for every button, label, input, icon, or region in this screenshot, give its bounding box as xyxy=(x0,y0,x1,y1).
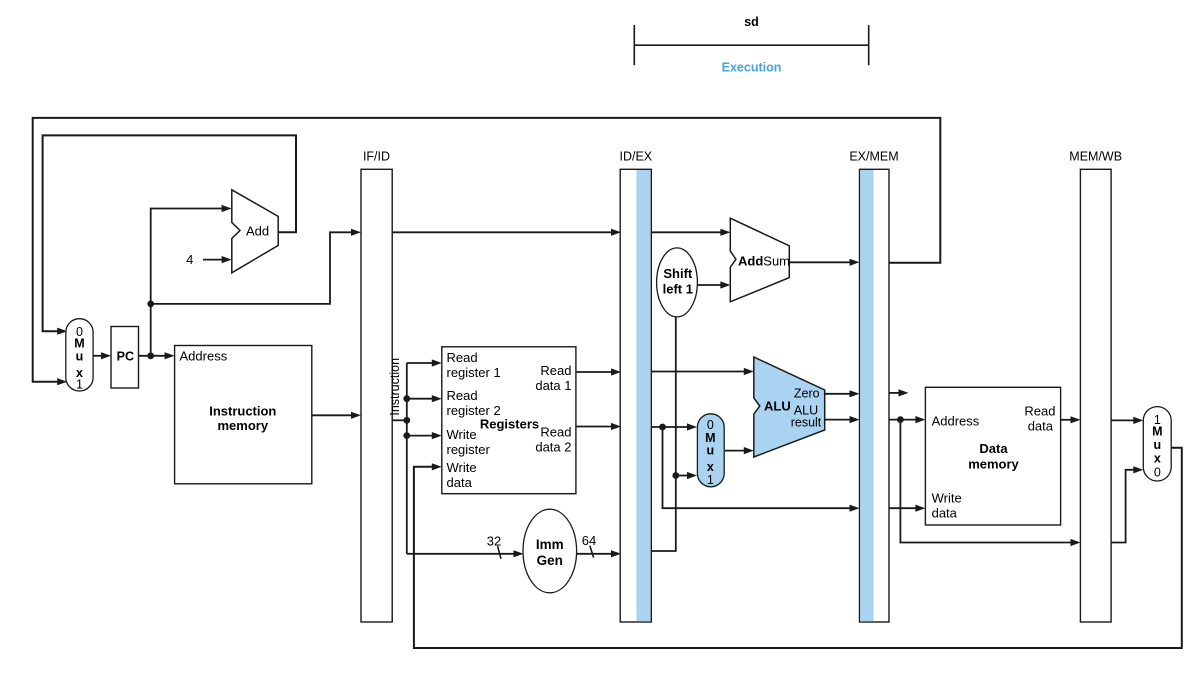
svg-text:Read: Read xyxy=(1024,403,1055,418)
svg-text:MEM/WB: MEM/WB xyxy=(1069,150,1122,164)
svg-text:Imm: Imm xyxy=(536,537,564,552)
svg-text:x: x xyxy=(707,460,714,474)
svg-text:Write: Write xyxy=(447,460,477,475)
svg-text:M: M xyxy=(1152,425,1162,439)
svg-text:M: M xyxy=(74,337,84,351)
svg-text:Instruction: Instruction xyxy=(388,358,402,416)
svg-text:Address: Address xyxy=(180,349,228,364)
svg-text:data 2: data 2 xyxy=(535,440,571,455)
svg-text:ALU: ALU xyxy=(764,398,791,413)
svg-text:Shift: Shift xyxy=(663,266,693,281)
svg-text:sd: sd xyxy=(744,15,759,29)
svg-text:0: 0 xyxy=(1154,466,1161,480)
svg-text:result: result xyxy=(791,415,822,429)
svg-text:4: 4 xyxy=(186,252,193,267)
svg-text:Add: Add xyxy=(246,224,269,239)
svg-text:Data: Data xyxy=(979,441,1008,456)
svg-text:register 1: register 1 xyxy=(447,365,501,380)
svg-text:left 1: left 1 xyxy=(663,282,693,297)
svg-text:u: u xyxy=(1153,438,1161,452)
svg-text:data: data xyxy=(1028,418,1054,433)
svg-text:64: 64 xyxy=(582,533,596,548)
svg-text:Address: Address xyxy=(932,413,980,428)
svg-text:Execution: Execution xyxy=(722,61,782,75)
svg-text:data: data xyxy=(932,506,958,521)
svg-text:1: 1 xyxy=(76,378,83,392)
svg-text:Instruction: Instruction xyxy=(209,404,276,419)
svg-text:Read: Read xyxy=(540,363,571,378)
svg-text:Write: Write xyxy=(932,491,962,506)
svg-text:u: u xyxy=(706,444,714,458)
svg-text:AddSum: AddSum xyxy=(738,254,790,269)
svg-text:IF/ID: IF/ID xyxy=(363,150,390,164)
svg-text:Read: Read xyxy=(447,350,478,365)
svg-text:Read: Read xyxy=(540,425,571,440)
svg-text:x: x xyxy=(1154,452,1161,466)
svg-text:1: 1 xyxy=(707,473,714,487)
svg-text:Registers: Registers xyxy=(480,417,539,432)
svg-text:memory: memory xyxy=(218,418,269,433)
svg-text:EX/MEM: EX/MEM xyxy=(849,150,898,164)
svg-text:PC: PC xyxy=(117,349,134,363)
svg-text:Zero: Zero xyxy=(794,387,820,401)
svg-text:Write: Write xyxy=(447,427,477,442)
svg-text:register: register xyxy=(447,442,491,457)
svg-text:Gen: Gen xyxy=(537,553,563,568)
svg-text:memory: memory xyxy=(968,456,1019,471)
svg-text:data: data xyxy=(447,475,473,490)
svg-text:Read: Read xyxy=(447,388,478,403)
svg-text:0: 0 xyxy=(707,418,714,432)
svg-text:data 1: data 1 xyxy=(535,378,571,393)
svg-text:32: 32 xyxy=(487,534,501,549)
svg-text:u: u xyxy=(76,350,84,364)
svg-text:ID/EX: ID/EX xyxy=(619,150,652,164)
